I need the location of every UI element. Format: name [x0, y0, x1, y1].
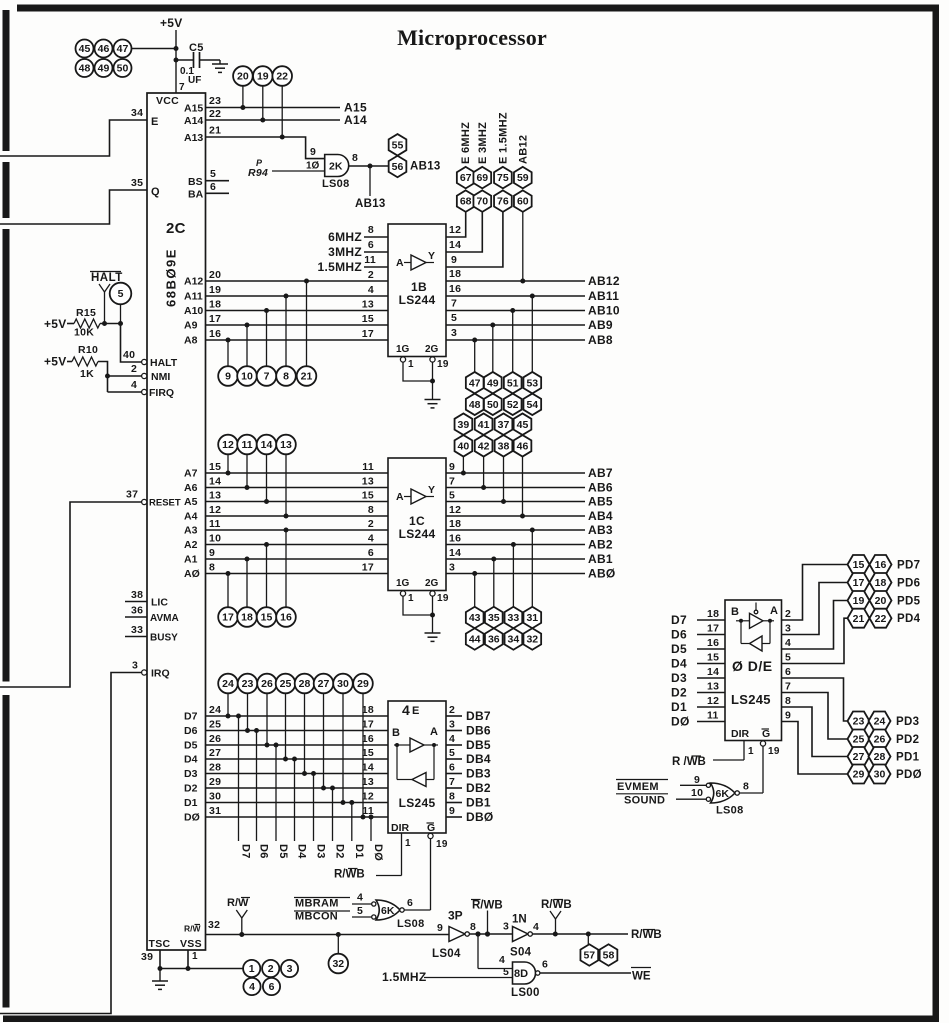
svg-text:1Ø: 1Ø	[306, 161, 320, 172]
svg-text:20: 20	[875, 595, 887, 607]
connector circle 14	[257, 435, 277, 455]
svg-text:20: 20	[237, 71, 249, 83]
net label D0 vertical	[372, 844, 384, 861]
net label SOUND	[616, 787, 708, 807]
connector hex 67	[457, 167, 475, 189]
wire net DB4 4E pin 5	[446, 747, 491, 766]
1B enable pins 1 and 19 to ground	[400, 357, 448, 400]
svg-text:17: 17	[222, 612, 234, 624]
wire net A7 pin 15 to 1C pin 11	[184, 454, 388, 479]
svg-text:11: 11	[209, 518, 221, 530]
svg-text:16: 16	[280, 612, 292, 624]
svg-text:4: 4	[368, 533, 374, 545]
svg-text:IRQ: IRQ	[151, 668, 170, 680]
svg-text:17: 17	[853, 577, 865, 589]
connector circle 11	[237, 435, 257, 455]
connector hex 15	[848, 555, 870, 574]
connector circle 15	[257, 607, 277, 627]
svg-text:3: 3	[451, 327, 457, 339]
svg-text:6: 6	[542, 959, 548, 971]
pin LIC 38	[125, 589, 168, 609]
pin Q 35 wire to off-page	[0, 177, 160, 224]
svg-text:1N: 1N	[512, 914, 527, 926]
connector hex 59	[514, 167, 532, 189]
svg-text:46: 46	[98, 43, 110, 55]
connector hex 34	[505, 628, 523, 650]
ground 1B	[425, 400, 441, 408]
svg-text:DBØ: DBØ	[466, 810, 494, 824]
wire net AB9 1B pin 5	[446, 312, 613, 372]
svg-text:35: 35	[488, 612, 500, 624]
svg-text:DB1: DB1	[466, 796, 491, 810]
connector hex 42	[475, 435, 493, 457]
svg-text:WE: WE	[632, 971, 651, 983]
wire DE-245 pin 8 to PD1	[782, 695, 848, 757]
svg-text:A4: A4	[184, 511, 198, 523]
svg-text:1.5MHZ: 1.5MHZ	[382, 970, 426, 984]
svg-text:15: 15	[209, 461, 221, 473]
svg-text:50: 50	[487, 399, 499, 411]
svg-text:3: 3	[503, 921, 509, 933]
pin RESET 37 wire to off-page	[0, 489, 181, 688]
connector hex 53	[523, 372, 541, 394]
svg-text:UF: UF	[188, 75, 201, 86]
svg-text:26: 26	[209, 733, 221, 745]
net label D7 vertical	[240, 844, 252, 859]
svg-text:FIRQ: FIRQ	[149, 387, 174, 399]
svg-text:MBRAM: MBRAM	[295, 898, 339, 910]
svg-text:45: 45	[517, 419, 529, 431]
connector hex 33	[505, 607, 523, 629]
svg-text:3: 3	[449, 719, 455, 731]
svg-text:A1: A1	[184, 554, 198, 566]
svg-text:59: 59	[517, 172, 529, 184]
svg-text:67: 67	[460, 172, 472, 184]
svg-text:E: E	[412, 705, 420, 717]
capacitor C5 0.1uF	[176, 42, 220, 86]
svg-text:3P: 3P	[448, 909, 463, 923]
svg-text:21: 21	[853, 613, 865, 625]
svg-text:28: 28	[874, 751, 886, 763]
svg-text:D2: D2	[334, 844, 346, 859]
svg-text:6: 6	[368, 239, 374, 251]
connector hex 20	[870, 591, 892, 610]
wire net A8 pin 16 to 1B pin 17	[184, 328, 388, 366]
svg-text:Y: Y	[428, 484, 435, 496]
svg-text:9: 9	[209, 547, 215, 559]
net label D2 vertical	[334, 844, 346, 859]
connector circle 13	[276, 435, 296, 455]
svg-text:R/W: R/W	[227, 897, 249, 909]
svg-text:DIR: DIR	[731, 728, 750, 740]
svg-text:50: 50	[117, 63, 129, 75]
wire HALT net to pin 40	[121, 324, 178, 370]
svg-text:48: 48	[469, 399, 481, 411]
wire 1B pin 9 to hex 76	[446, 212, 503, 267]
connector hex 44	[466, 628, 484, 650]
svg-text:6: 6	[407, 897, 413, 909]
svg-text:A11: A11	[184, 291, 203, 303]
svg-text:LS00: LS00	[511, 987, 540, 999]
connector hex 51	[504, 372, 522, 394]
svg-text:53: 53	[526, 377, 538, 389]
svg-text:6: 6	[210, 181, 216, 193]
svg-text:A6: A6	[184, 482, 198, 494]
svg-text:1C: 1C	[409, 514, 425, 528]
connector hex 16	[870, 555, 892, 574]
wire net A4 pin 12 to 1C pin 8	[184, 454, 388, 522]
svg-text:A7: A7	[184, 468, 198, 480]
connector hex 26	[869, 730, 891, 749]
resistor R94 input wire	[248, 158, 325, 179]
connector hex 31	[523, 607, 541, 629]
svg-text:20: 20	[209, 269, 221, 281]
net label /R/WB	[471, 900, 503, 935]
svg-text:19: 19	[436, 839, 448, 850]
svg-text:51: 51	[507, 377, 519, 389]
svg-text:25: 25	[853, 734, 865, 746]
svg-text:49: 49	[98, 63, 110, 75]
connector circle 3	[281, 960, 298, 977]
net label D3 vertical	[315, 844, 327, 859]
svg-text:9: 9	[437, 922, 443, 934]
svg-text:1B: 1B	[411, 280, 427, 294]
connector circle 12	[218, 435, 238, 455]
svg-text:5: 5	[785, 652, 791, 664]
svg-text:AB6: AB6	[588, 481, 613, 495]
connector hex 56	[389, 156, 407, 178]
svg-text:60: 60	[517, 196, 529, 208]
svg-text:R/WB: R/WB	[541, 899, 572, 911]
svg-text:4: 4	[249, 981, 255, 993]
svg-text:8: 8	[368, 504, 374, 516]
svg-text:29: 29	[357, 678, 369, 690]
connector hex 36	[485, 628, 503, 650]
wire DE-245 pin 6 to PD3	[782, 666, 848, 721]
IC DE LS245 transceiver	[725, 600, 782, 741]
connector hex 25	[848, 730, 870, 749]
net label D5 vertical	[277, 844, 289, 859]
svg-text:9: 9	[785, 710, 791, 722]
wire 1B pin 12 to hex 68	[446, 212, 466, 237]
connector hex 19	[848, 591, 870, 610]
node HALT test point	[90, 272, 123, 324]
svg-text:AB13: AB13	[410, 161, 441, 173]
connector hex 54	[523, 394, 541, 416]
svg-text:LS244: LS244	[399, 293, 436, 307]
wire DE-245 pin 4 to PD5	[782, 601, 848, 650]
svg-text:35: 35	[131, 177, 143, 189]
connector circle 20	[233, 66, 253, 107]
pin TSC 39 and VSS 1 ground	[141, 950, 243, 971]
svg-text:49: 49	[487, 377, 499, 389]
svg-text:11: 11	[362, 805, 374, 817]
wire net AB5 1C pin 5	[446, 457, 613, 509]
connector hex 27	[848, 747, 870, 766]
svg-text:5: 5	[118, 288, 124, 300]
wire net D5 pin 26 to 4E pin 16	[184, 693, 388, 841]
svg-text:A3: A3	[184, 525, 198, 537]
svg-text:2: 2	[785, 608, 791, 620]
connector hex 48	[466, 394, 484, 416]
and-gate 2K LS08	[322, 152, 358, 190]
svg-text:A9: A9	[184, 320, 198, 332]
svg-text:D2: D2	[184, 783, 198, 795]
svg-text:S04: S04	[510, 947, 532, 959]
svg-text:B: B	[731, 606, 739, 618]
wire net AB7 1C pin 9	[446, 457, 613, 480]
svg-text:36: 36	[131, 605, 143, 617]
svg-text:36: 36	[488, 634, 500, 646]
svg-text:4: 4	[499, 954, 505, 966]
svg-text:3: 3	[132, 660, 138, 672]
wire net A3 pin 11 to 1C pin 2	[184, 518, 388, 607]
svg-text:12: 12	[449, 504, 461, 516]
svg-text:10: 10	[241, 371, 253, 383]
svg-text:8: 8	[283, 371, 289, 383]
wire net AB0 1C pin 3	[446, 562, 616, 607]
svg-text:25: 25	[209, 719, 221, 731]
connector circle 50	[114, 59, 132, 77]
net label PD4	[897, 613, 921, 625]
svg-text:A8: A8	[184, 335, 198, 347]
svg-text:30: 30	[209, 791, 221, 803]
svg-text:16: 16	[209, 328, 221, 340]
svg-text:6: 6	[368, 547, 374, 559]
net label PD2	[896, 734, 919, 746]
svg-text:PD5: PD5	[897, 596, 921, 608]
connector hex 68	[457, 190, 475, 212]
svg-text:19: 19	[768, 746, 780, 757]
svg-text:A14: A14	[184, 115, 203, 127]
svg-text:AB8: AB8	[588, 333, 613, 347]
svg-text:54: 54	[526, 399, 538, 411]
svg-text:LS245: LS245	[399, 796, 436, 810]
wire net AB11 1B pin 16	[446, 283, 619, 372]
svg-text:4: 4	[357, 892, 363, 904]
svg-text:16: 16	[707, 637, 719, 649]
connector circle 27	[314, 674, 334, 694]
pin BUSY 33	[125, 624, 178, 644]
wire net D6 pin 25 to 4E pin 17	[184, 693, 388, 841]
connector hex 23	[848, 712, 870, 731]
svg-text:2: 2	[131, 363, 137, 375]
svg-text:A10: A10	[184, 305, 203, 317]
svg-text:14: 14	[449, 239, 461, 251]
svg-text:19: 19	[437, 593, 449, 604]
4E DIR pin 1 and R/WB	[334, 833, 411, 881]
svg-text:8: 8	[368, 224, 374, 236]
svg-text:7: 7	[785, 681, 791, 693]
svg-text:24: 24	[209, 704, 221, 716]
svg-text:+5V: +5V	[44, 355, 67, 369]
svg-text:DB6: DB6	[466, 724, 491, 738]
wire net A1 pin 9 to 1C pin 6	[184, 547, 388, 607]
svg-text:26: 26	[874, 734, 886, 746]
connector hex 58	[600, 944, 618, 966]
connector circle 29	[353, 674, 373, 694]
svg-text:AB4: AB4	[588, 509, 613, 523]
wire DE-245 pin 3 to PD6	[782, 583, 848, 635]
svg-text:PDØ: PDØ	[896, 769, 922, 781]
svg-text:16: 16	[875, 559, 887, 571]
svg-text:7: 7	[449, 476, 455, 488]
svg-text:7: 7	[451, 298, 457, 310]
connector circle 6	[263, 978, 280, 995]
svg-text:5: 5	[449, 747, 455, 759]
connector circle 49	[95, 59, 113, 77]
svg-text:3: 3	[287, 963, 293, 975]
svg-text:18: 18	[875, 577, 887, 589]
svg-text:R10: R10	[78, 344, 98, 356]
svg-text:27: 27	[209, 747, 221, 759]
svg-text:PD3: PD3	[896, 716, 919, 728]
wire net D0 pin 31 to 4E pin 11	[184, 693, 388, 841]
svg-text:5: 5	[503, 966, 509, 978]
svg-text:47: 47	[469, 377, 481, 389]
svg-text:68BØ9E: 68BØ9E	[164, 248, 179, 307]
connector circle 7	[257, 366, 277, 386]
svg-text:17: 17	[707, 623, 719, 635]
net label EVMEM	[616, 774, 708, 793]
svg-text:24: 24	[222, 678, 234, 690]
connector hex 24	[869, 712, 891, 731]
svg-text:R/WB: R/WB	[334, 869, 365, 881]
pin BS 5 stub	[188, 168, 229, 188]
wire net A6 pin 14 to 1C pin 13	[184, 454, 388, 494]
connector hex 38	[495, 435, 513, 457]
svg-text:D6: D6	[258, 844, 270, 859]
svg-text:A: A	[770, 605, 778, 617]
wire 6K output to 4E G	[404, 909, 430, 911]
svg-text:19: 19	[257, 71, 269, 83]
svg-text:32: 32	[208, 919, 220, 931]
svg-text:6K: 6K	[716, 788, 730, 800]
svg-text:40: 40	[458, 440, 470, 452]
svg-text:6MHZ: 6MHZ	[328, 230, 362, 244]
wire net 6MHZ to 1B pin 8	[328, 224, 388, 244]
svg-text:9: 9	[310, 146, 316, 158]
svg-text:2: 2	[268, 963, 274, 975]
svg-text:69: 69	[476, 172, 488, 184]
wire net D1 to DE-245 pin 12	[671, 695, 725, 714]
wire net R/W pin 32	[206, 919, 450, 937]
svg-text:34: 34	[508, 634, 520, 646]
svg-text:1: 1	[408, 593, 414, 604]
svg-text:BUSY: BUSY	[150, 633, 178, 644]
svg-text:46: 46	[517, 440, 529, 452]
net label MBRAM	[294, 892, 372, 910]
svg-text:PD1: PD1	[896, 752, 920, 764]
wire net DB1 4E pin 8	[446, 791, 491, 810]
svg-text:DØ: DØ	[184, 812, 200, 824]
wire net 1.5MHZ to 8D pin 5	[382, 966, 513, 984]
svg-text:BS: BS	[188, 176, 203, 188]
wire net A14 pin 22	[184, 108, 367, 127]
wire net DB3 4E pin 6	[446, 762, 491, 781]
svg-text:30: 30	[874, 769, 886, 781]
connector hex 32	[523, 628, 541, 650]
svg-text:D5: D5	[184, 740, 198, 752]
svg-text:AB13: AB13	[355, 198, 386, 210]
svg-text:A14: A14	[344, 113, 367, 127]
svg-text:D6: D6	[671, 628, 687, 642]
connector hex 17	[848, 573, 870, 592]
wire DE-245 pin 5 to PD4	[782, 618, 848, 663]
wire 8D input pin 4	[478, 934, 513, 969]
ground for C5	[212, 60, 228, 72]
connector hex 70	[473, 190, 491, 212]
IC 1B LS244 buffer	[388, 224, 446, 357]
svg-text:R15: R15	[76, 307, 96, 319]
svg-text:RESET: RESET	[149, 498, 181, 509]
svg-text:Ø D/E: Ø D/E	[732, 658, 773, 674]
pin E 34 wire to off-page	[0, 107, 159, 156]
svg-text:70: 70	[476, 196, 488, 208]
connector circle 21	[297, 366, 317, 386]
wire AB13 net	[349, 161, 441, 211]
wire net AB6 1C pin 7	[446, 457, 613, 495]
svg-text:AB11: AB11	[588, 289, 619, 303]
connector hex 69	[473, 167, 491, 189]
svg-text:26: 26	[261, 678, 273, 690]
ground 1C	[425, 633, 441, 641]
svg-text:R94: R94	[248, 167, 268, 179]
svg-text:D4: D4	[671, 657, 687, 671]
svg-text:14: 14	[707, 666, 719, 678]
svg-text:4: 4	[402, 702, 410, 718]
DE-245 G pin 19	[760, 741, 779, 793]
svg-text:32: 32	[332, 958, 344, 970]
svg-text:PD6: PD6	[897, 578, 920, 590]
wire net 3MHZ to 1B pin 6	[328, 239, 388, 259]
wire to hex 57	[587, 934, 589, 944]
wire net DB2 4E pin 7	[446, 776, 491, 795]
svg-text:15: 15	[362, 490, 374, 502]
svg-text:8: 8	[743, 781, 749, 793]
wire 1B pin 14 to hex 70	[446, 212, 482, 252]
svg-text:PD7: PD7	[897, 560, 920, 572]
svg-text:2: 2	[449, 704, 455, 716]
svg-text:13: 13	[280, 439, 292, 451]
svg-text:57: 57	[583, 950, 595, 962]
svg-text:D3: D3	[671, 671, 687, 685]
pin BA 6 stub	[188, 181, 229, 201]
wire net A0 pin 8 to 1C pin 17	[184, 562, 388, 608]
svg-text:17: 17	[362, 562, 374, 574]
net label PD5	[897, 596, 921, 608]
svg-text:13: 13	[362, 476, 374, 488]
connector circle 2	[262, 960, 279, 977]
svg-text:33: 33	[131, 624, 143, 636]
svg-text:E 3MHZ: E 3MHZ	[477, 122, 489, 164]
connector hex 49	[484, 372, 502, 394]
wire net D6 to DE-245 pin 17	[671, 623, 725, 642]
svg-text:10K: 10K	[74, 327, 94, 339]
svg-text:A: A	[396, 491, 404, 503]
svg-text:LS08: LS08	[322, 178, 350, 190]
svg-text:55: 55	[392, 139, 404, 151]
wire net AB12 1B pin 18	[446, 212, 620, 288]
svg-text:NMI: NMI	[151, 371, 170, 383]
svg-text:A15: A15	[184, 103, 203, 115]
connector hex 55	[389, 134, 407, 156]
svg-text:1: 1	[249, 963, 255, 975]
svg-text:68: 68	[460, 196, 472, 208]
svg-text:12: 12	[449, 224, 461, 236]
svg-text:D1: D1	[184, 797, 198, 809]
wire net A12 pin 20 to 1B pin 2	[184, 269, 388, 366]
